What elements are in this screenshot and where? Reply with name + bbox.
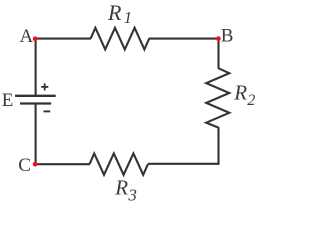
resistor R1	[91, 28, 150, 50]
wire R3 to C (bottom left)	[35, 163, 90, 165]
svg-text:R2: R2	[233, 81, 255, 109]
svg-text:E: E	[2, 90, 14, 111]
svg-text:A: A	[20, 26, 34, 47]
battery minus sign	[44, 110, 51, 112]
resistor R2	[206, 68, 229, 127]
wire bottom-right corner to R3	[148, 163, 219, 165]
wire R1 to B (top right)	[149, 38, 220, 40]
wire R2 to bottom-right corner	[218, 127, 219, 164]
wire C up to battery minus	[35, 104, 37, 165]
wire B to R2 (right top)	[217, 38, 219, 69]
node B (red junction dot)	[216, 36, 221, 41]
svg-text:R1: R1	[107, 0, 132, 27]
battery plus sign	[41, 83, 48, 90]
svg-text:R3: R3	[114, 176, 137, 205]
svg-text:B: B	[221, 26, 234, 47]
resistor R3	[90, 153, 148, 174]
battery E negative plate	[20, 102, 51, 104]
svg-text:C: C	[18, 155, 31, 176]
wire A to R1 (top left)	[36, 38, 91, 40]
battery E positive plate	[15, 95, 56, 97]
node C (red junction dot)	[33, 162, 38, 167]
wire battery plus up to A	[35, 38, 37, 96]
node A (red junction dot)	[33, 36, 38, 41]
